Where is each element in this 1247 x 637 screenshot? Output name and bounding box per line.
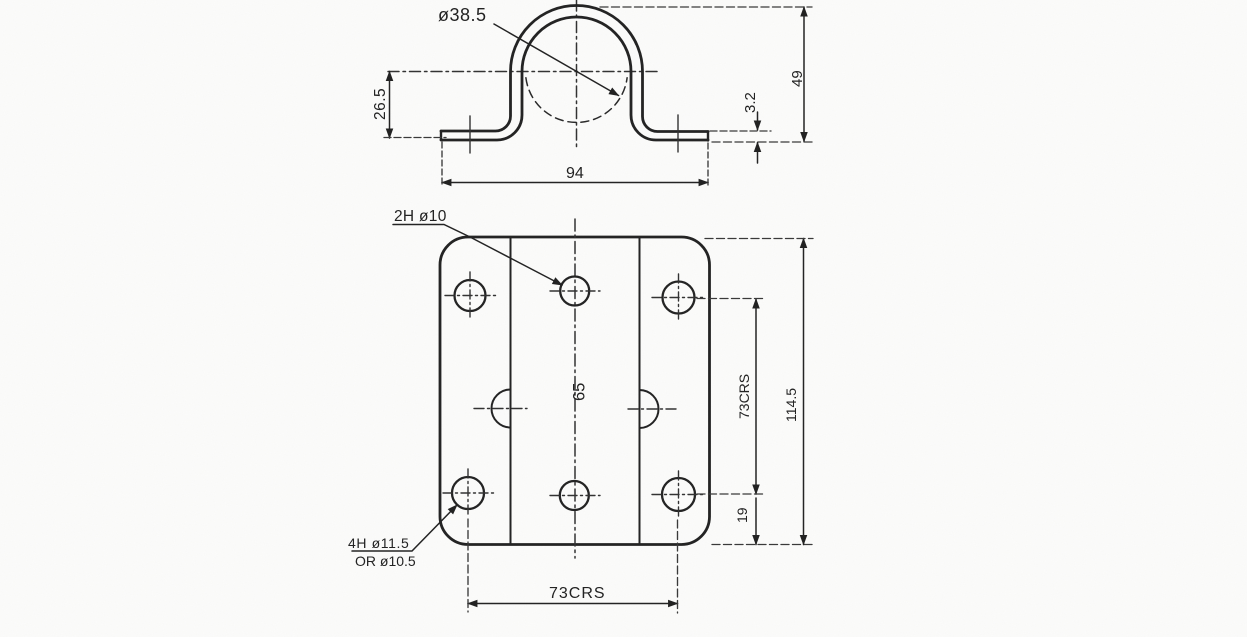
plate outline [440, 237, 710, 545]
svg-text:26.5: 26.5 [372, 88, 389, 120]
hole BL [452, 477, 484, 509]
dimension 19 [755, 498, 757, 545]
saddle inner surface (foot bottoms, leg inners, dome inner arc) [441, 17, 708, 140]
svg-text:19: 19 [734, 507, 750, 523]
left bend line [510, 237, 512, 545]
hole BM [560, 481, 589, 510]
extension TR hole [697, 298, 765, 300]
extension line foot bottom right [712, 141, 812, 143]
left foot end cap [440, 131, 442, 140]
extension plate top [705, 238, 813, 240]
extension line foot-bottom for 26.5 [384, 137, 446, 139]
wire: horizontal centerline through pipe centre [388, 71, 660, 73]
svg-text:73CRS: 73CRS [736, 374, 752, 419]
dimension 94 line [442, 182, 708, 184]
hole TL [455, 280, 486, 311]
svg-text:ø38.5: ø38.5 [438, 5, 487, 25]
leader o38.5 [494, 24, 619, 96]
svg-text:114.5: 114.5 [783, 388, 799, 422]
right foot hole tick [677, 115, 679, 152]
svg-text:94: 94 [566, 165, 584, 182]
right bend line [639, 237, 641, 545]
dimension 49 line [803, 7, 805, 142]
extension BR hole down [677, 520, 679, 613]
hole BR [662, 478, 695, 511]
svg-text:4H ø11.5: 4H ø11.5 [348, 535, 409, 551]
dimension 73CRS right [755, 299, 757, 494]
extension line dome top [600, 6, 812, 8]
svg-text:65: 65 [571, 383, 589, 401]
left dimple centerline [474, 408, 527, 410]
right dimple centerline [628, 408, 678, 410]
wire: vertical centerline of dome [576, 0, 578, 148]
extension line right foot end [707, 143, 709, 187]
dimension 3.2 arrows [757, 112, 759, 130]
leader 4H holes [352, 505, 457, 551]
right dimple bulge [640, 390, 659, 428]
dimension 73CRS bottom [468, 603, 678, 605]
leader 2H o10 [393, 225, 562, 286]
hole TR [663, 282, 695, 314]
left dimple bulge [492, 390, 511, 428]
right foot end cap [707, 132, 709, 141]
dimension 114.5 [803, 239, 805, 545]
extension BR hole [697, 493, 765, 495]
svg-text:OR ø10.5: OR ø10.5 [355, 553, 416, 569]
svg-text:73CRS: 73CRS [549, 585, 606, 602]
saddle outer surface (foot tops, leg outers, dome outer arc) [441, 6, 708, 132]
extension plate bottom [712, 544, 813, 546]
extension BL hole down [467, 519, 469, 612]
pipe circle o38.5 (dashed, lower arc) [526, 78, 627, 123]
left foot hole tick [469, 116, 471, 153]
hole TM [560, 277, 589, 306]
svg-text:3.2: 3.2 [742, 92, 759, 113]
extension line foot top right [710, 130, 771, 132]
main vertical centerline of plate [574, 219, 576, 558]
dimension 26.5 [389, 72, 391, 139]
svg-text:49: 49 [789, 70, 806, 87]
svg-text:2H ø10: 2H ø10 [394, 208, 447, 225]
extension line left foot end [441, 142, 443, 187]
